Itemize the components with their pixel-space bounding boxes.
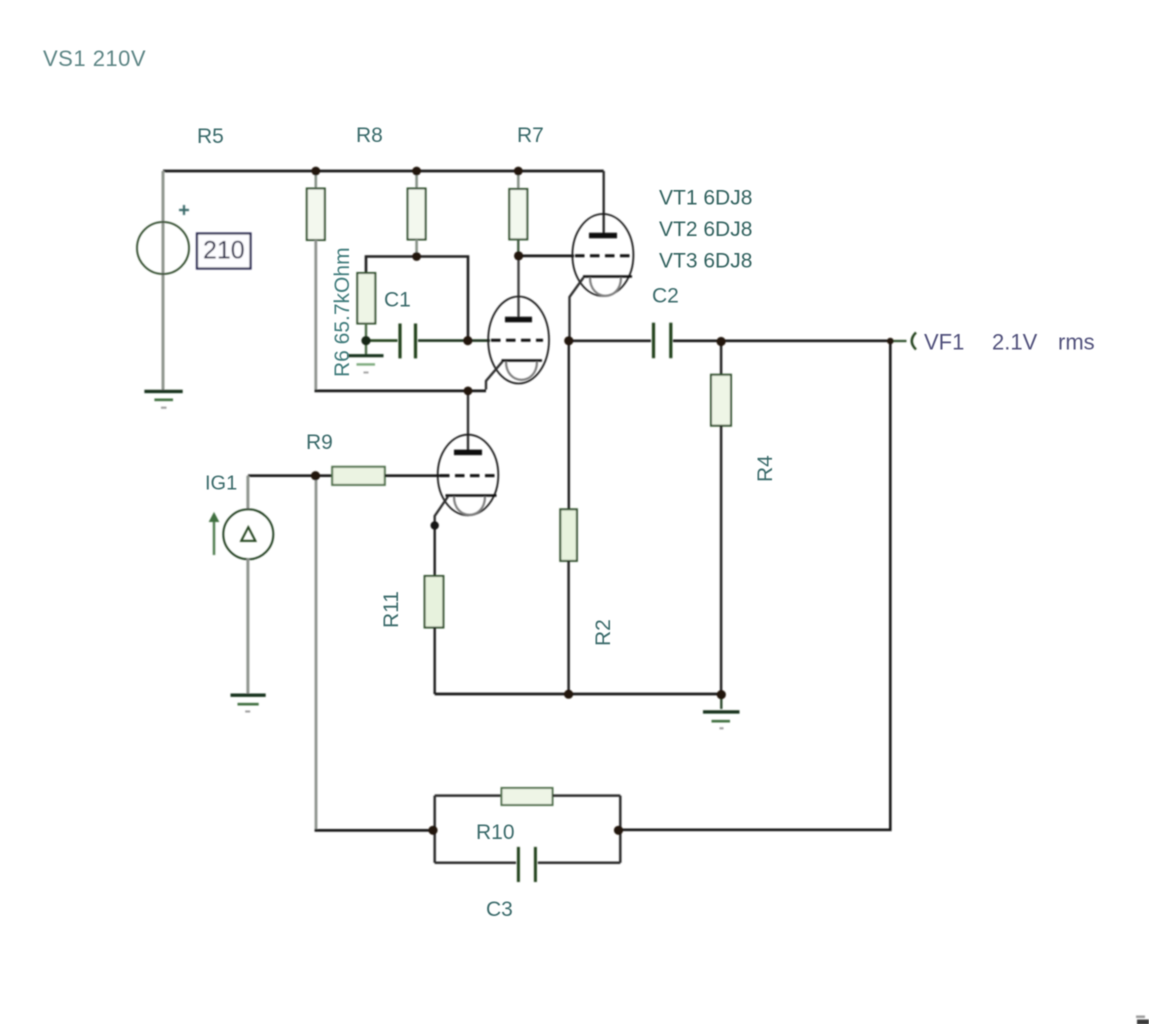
corner mark bottom right bbox=[1136, 1016, 1149, 1024]
wire left to R10 box bbox=[315, 829, 433, 832]
svg-text:VT1 6DJ8: VT1 6DJ8 bbox=[659, 187, 752, 210]
wire IG1 column lower bbox=[246, 559, 249, 694]
junction ground-bottom rail bbox=[717, 690, 726, 699]
wire top bus bbox=[163, 170, 604, 173]
wire bottom rail (R11 to ground) bbox=[435, 693, 722, 696]
svg-text:R5: R5 bbox=[197, 125, 224, 148]
voltage source VS1 bbox=[137, 222, 189, 274]
wire feedback column bbox=[315, 476, 318, 831]
resistor R4 bbox=[711, 342, 731, 695]
wire VT1 grid feed bbox=[519, 255, 574, 258]
svg-text:C2: C2 bbox=[652, 285, 679, 308]
svg-text:R10: R10 bbox=[476, 821, 515, 844]
current source IG1 wire bbox=[248, 474, 316, 477]
capacitor C2 bbox=[654, 323, 891, 359]
svg-text:R6 65.7kOhm: R6 65.7kOhm bbox=[331, 247, 354, 377]
svg-text:VT2 6DJ8: VT2 6DJ8 bbox=[659, 218, 752, 241]
svg-text:R4: R4 bbox=[754, 455, 777, 482]
wire VT2 anode lead bbox=[517, 256, 519, 317]
junction R7-VT1 grid bbox=[514, 251, 523, 260]
R10/C3 box left side bbox=[433, 796, 436, 863]
wire output node to VF1 bbox=[890, 340, 906, 342]
wire VT3 anode lead bbox=[467, 391, 469, 452]
plus sign of VS1 bbox=[179, 205, 189, 215]
R10/C3 box right side bbox=[619, 796, 622, 863]
junction IG1-R9 bbox=[311, 471, 320, 480]
IG1 arrow bbox=[210, 513, 219, 555]
junction bus-R5 bbox=[311, 167, 320, 176]
wire mid horizontal (R5 to VT2 cathode) bbox=[315, 390, 487, 393]
output bracket bbox=[912, 333, 916, 350]
triode VT3 bbox=[438, 435, 499, 516]
ground (VS1) bbox=[144, 391, 182, 407]
ground (bottom right) bbox=[703, 695, 740, 729]
resistor R6 bbox=[357, 273, 375, 341]
junction R2-bottom rail bbox=[564, 690, 573, 699]
ground (IG1) bbox=[231, 695, 266, 711]
capacitor C1 bbox=[366, 324, 490, 359]
resistor R5 bbox=[307, 171, 325, 240]
svg-text:rms: rms bbox=[1058, 330, 1095, 355]
current source IG1 bbox=[223, 509, 273, 559]
junction VT3 cathode-R11 bbox=[431, 521, 439, 529]
wire IG1 column upper bbox=[246, 476, 249, 510]
junction R8-C1 rail bbox=[412, 252, 421, 261]
junction C1 rail drop bbox=[463, 336, 472, 345]
svg-text:R2: R2 bbox=[592, 619, 615, 646]
resistor R9 bbox=[316, 467, 441, 485]
ground (R6) bbox=[348, 341, 384, 373]
resistor R8 bbox=[408, 171, 426, 257]
svg-text:210: 210 bbox=[203, 237, 245, 265]
svg-text:R9: R9 bbox=[306, 431, 333, 454]
wire VF1 vertical bbox=[619, 341, 891, 830]
junction bus-R7 bbox=[514, 167, 523, 176]
wire VT3 cathode drop bbox=[435, 497, 448, 526]
svg-text:2.1V: 2.1V bbox=[992, 330, 1038, 355]
resistor R7 bbox=[509, 171, 527, 256]
wire VS1 column bbox=[162, 171, 165, 391]
svg-text:C3: C3 bbox=[486, 898, 513, 921]
capacitor C3 bbox=[435, 847, 621, 882]
junction R6-C1-ground bbox=[361, 336, 370, 345]
junction R10 box left bbox=[428, 826, 437, 835]
wire C2 rail bbox=[569, 339, 652, 342]
label VF1 2.1V rms bbox=[924, 330, 1095, 355]
junction C2-R4 bbox=[717, 337, 726, 346]
svg-text:R11: R11 bbox=[380, 591, 403, 628]
svg-text:R7: R7 bbox=[517, 124, 544, 147]
wire VT1 cathode drop bbox=[570, 278, 584, 340]
wire VT1 anode lead bbox=[603, 171, 605, 236]
resistor R2 bbox=[560, 509, 577, 694]
svg-text:VS1 210V: VS1 210V bbox=[43, 46, 146, 71]
resistor R10 bbox=[435, 788, 621, 805]
svg-text:VT3 6DJ8: VT3 6DJ8 bbox=[659, 250, 752, 273]
svg-text:IG1: IG1 bbox=[205, 473, 237, 495]
wire VT1-cathode column down to R2 bbox=[568, 341, 571, 510]
resistor R11 bbox=[425, 526, 444, 695]
junction VT1 cathode / C2 bbox=[564, 336, 573, 345]
wire R5 bottom run bbox=[314, 240, 317, 390]
node VF1 bbox=[887, 338, 894, 345]
wire VT2 cathode drop bbox=[486, 362, 503, 390]
junction mid wire-VT3 anode bbox=[464, 387, 473, 396]
svg-text:C1: C1 bbox=[384, 289, 411, 312]
triode VT1 bbox=[572, 214, 633, 296]
value box 210 of VS1 bbox=[197, 234, 251, 269]
svg-text:R8: R8 bbox=[356, 124, 383, 147]
triode VT2 bbox=[488, 297, 549, 384]
junction bus-R8 bbox=[412, 167, 421, 176]
svg-text:VF1: VF1 bbox=[924, 330, 964, 355]
wire C1 top rail bbox=[366, 257, 468, 341]
junction R10 box right bbox=[614, 826, 623, 835]
